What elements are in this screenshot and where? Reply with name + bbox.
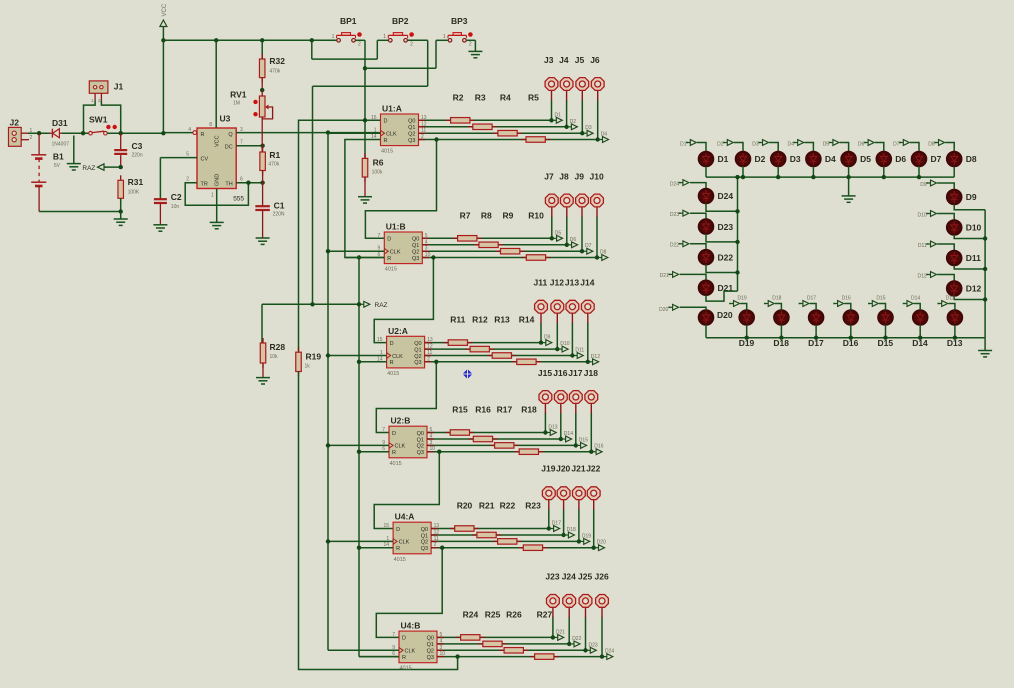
capacitor C2 10n (154, 198, 167, 200)
svg-text:D15: D15 (579, 437, 588, 443)
ground BP3 (468, 50, 482, 52)
connector J25 (579, 595, 592, 608)
svg-text:D20: D20 (659, 307, 668, 313)
wire BP3.2 to ground (474, 40, 476, 51)
terminal D21 (555, 636, 558, 638)
IC U4:A 4015 (393, 522, 431, 554)
wire D9 cathode (954, 204, 985, 209)
wire U4:A Q2 row (431, 540, 579, 542)
svg-text:Q3: Q3 (417, 450, 424, 456)
LED D5 (841, 152, 856, 167)
terminal D5 feed (829, 142, 831, 144)
resistor R25 (478, 643, 507, 645)
wire pad drop J12 (556, 323, 558, 349)
svg-text:R23: R23 (525, 501, 541, 511)
svg-text:J19: J19 (541, 464, 555, 474)
svg-text:R: R (384, 138, 388, 144)
svg-text:J10: J10 (590, 172, 604, 182)
svg-text:U2:B: U2:B (391, 416, 411, 426)
resistor R21 (472, 534, 501, 536)
svg-text:Q3: Q3 (408, 138, 415, 144)
svg-text:R1: R1 (269, 150, 280, 160)
svg-text:5: 5 (186, 151, 189, 157)
wire U2:A R lead (359, 361, 387, 363)
wire RAZ row (262, 303, 359, 305)
svg-text:J12: J12 (550, 278, 564, 288)
svg-text:J23: J23 (545, 572, 559, 582)
LED D15 (878, 310, 893, 325)
svg-text:RV1: RV1 (230, 89, 247, 99)
LED D16 (844, 310, 859, 325)
wire VCC to switch row (162, 40, 164, 133)
wire D7 cathode (918, 166, 920, 177)
svg-text:R31: R31 (128, 177, 144, 187)
svg-text:J16: J16 (553, 368, 567, 378)
LED D3 (771, 152, 786, 167)
node J13/D11 (570, 353, 574, 357)
svg-text:D17: D17 (552, 521, 561, 527)
terminal D7 (584, 250, 587, 252)
svg-text:15: 15 (377, 337, 383, 343)
svg-text:D13: D13 (946, 296, 955, 302)
svg-text:SW1: SW1 (89, 115, 108, 125)
LED D6 (877, 152, 892, 167)
svg-text:1M: 1M (233, 101, 240, 107)
svg-text:R7: R7 (460, 210, 471, 220)
node J11/D9 (539, 340, 543, 344)
node J12/D10 (555, 347, 559, 351)
svg-text:7: 7 (240, 140, 243, 146)
ground after D31 (73, 136, 75, 164)
potentiometer RV1 1M (261, 90, 263, 96)
terminal D17 feed (799, 303, 801, 305)
LED panel left bus (737, 177, 739, 291)
svg-text:R15: R15 (452, 405, 468, 415)
resistor R28 10k (261, 304, 263, 343)
wire D22 cathode (706, 265, 738, 273)
svg-text:TH: TH (225, 182, 232, 188)
resistor R31 100K (120, 175, 122, 203)
svg-text:R10: R10 (528, 210, 544, 220)
wire D3 cathode (777, 166, 779, 177)
wire D19 cathode (746, 325, 748, 338)
svg-text:R28: R28 (270, 342, 286, 352)
wire U2:B Q3 row (427, 451, 591, 453)
svg-text:D3: D3 (585, 125, 592, 131)
terminal D12 (590, 361, 593, 363)
svg-text:D3: D3 (752, 141, 759, 147)
svg-text:J5: J5 (575, 55, 585, 65)
terminal D2 feed (723, 142, 725, 144)
terminal D3 feed (758, 142, 760, 144)
wire D18 anode (775, 304, 782, 311)
wire BP3 leads (436, 39, 448, 41)
wire SW1 to VCC node (107, 132, 163, 134)
svg-text:R16: R16 (475, 405, 491, 415)
svg-text:VCC: VCC (215, 135, 221, 147)
svg-text:D: D (384, 119, 388, 125)
node right bus D10 (983, 236, 987, 240)
LED D19 (739, 310, 754, 325)
node top bus D4 (811, 175, 815, 179)
terminal D15 (578, 444, 581, 446)
wire feedback line (top) (299, 120, 381, 352)
wire U2:A Q3 row (425, 361, 588, 363)
node J14/D12 (586, 360, 590, 364)
svg-text:Q0: Q0 (421, 527, 428, 533)
node U4:A Q3 (440, 546, 444, 550)
node CLK bus top (326, 130, 330, 134)
svg-text:Q3: Q3 (412, 256, 419, 262)
555 pin4 R with bubble (163, 132, 192, 134)
svg-text:J18: J18 (584, 368, 598, 378)
node top bus D3 (776, 175, 780, 179)
wire U2:B CLK lead (328, 444, 389, 446)
wire U2:B R lead (359, 451, 389, 453)
svg-text:Q1: Q1 (427, 642, 434, 648)
resistor R26 (499, 649, 528, 651)
svg-text:4015: 4015 (385, 267, 397, 273)
wire D1 cathode (705, 166, 707, 177)
terminal D16 (593, 451, 596, 453)
terminal D6 feed (864, 142, 866, 144)
svg-text:Q2: Q2 (412, 250, 419, 256)
svg-text:D6: D6 (858, 141, 865, 147)
terminal D19 feed (729, 303, 731, 305)
svg-text:D24: D24 (718, 191, 734, 201)
wire D11 anode (937, 244, 954, 251)
svg-text:D9: D9 (544, 335, 551, 341)
terminal D16 feed (833, 303, 835, 305)
terminal D13 feed (937, 303, 939, 305)
svg-text:4015: 4015 (381, 149, 393, 155)
wire D23 cathode (706, 234, 738, 242)
svg-text:1k: 1k (305, 364, 311, 370)
wire U1:B Q2 row (422, 250, 582, 252)
ground R6 (358, 196, 372, 198)
svg-text:D13: D13 (548, 425, 557, 431)
svg-text:U4:A: U4:A (395, 512, 415, 522)
terminal D14 feed (903, 303, 905, 305)
node right bus D12 (983, 297, 987, 301)
svg-text:D22: D22 (572, 636, 581, 642)
IC U1:B 4015 (384, 232, 422, 264)
svg-text:D15: D15 (876, 296, 885, 302)
node bottom bus D19 (745, 336, 749, 340)
wire U2:B Q0 row (427, 432, 545, 434)
terminal D15 feed (868, 303, 870, 305)
IC U2:B 4015 (389, 426, 427, 458)
svg-text:Q2: Q2 (408, 132, 415, 138)
svg-text:D23: D23 (718, 222, 734, 232)
wire U2:A Q2 row (425, 355, 573, 357)
svg-text:R11: R11 (450, 315, 465, 325)
node RAZ/BP2 (310, 302, 314, 306)
svg-text:D19: D19 (738, 296, 747, 302)
wire pad drop J6 (597, 100, 599, 140)
resistor R17 (490, 444, 519, 446)
wire D24 cathode (706, 203, 738, 211)
wire U2:B Q1 row (427, 438, 561, 440)
svg-text:D16: D16 (594, 444, 603, 450)
connector J17 (569, 391, 582, 404)
svg-text:J8: J8 (559, 172, 569, 182)
node J4/D2 (564, 125, 568, 129)
wire D5 anode (840, 143, 849, 152)
svg-text:15: 15 (384, 523, 390, 529)
node U2:B Q3 (437, 450, 441, 454)
node bottom bus D14 (918, 336, 922, 340)
svg-text:4015: 4015 (390, 461, 402, 467)
node R bus U2:B (357, 450, 361, 454)
connector J26 (596, 595, 609, 608)
ground C2 (153, 224, 167, 226)
wire U2:A CLK lead (328, 355, 387, 357)
wire pad drop J15 (544, 413, 546, 433)
wire D19 anode (740, 304, 747, 311)
resistor R27 (530, 656, 559, 658)
wire U4:A CLK lead (328, 540, 393, 542)
svg-text:4015: 4015 (400, 666, 412, 672)
terminal D10 (559, 348, 562, 350)
wire pad drop J24 (568, 617, 570, 644)
wire D21 cathode (706, 291, 738, 301)
svg-text:CLK: CLK (392, 354, 403, 360)
svg-text:D1: D1 (680, 141, 687, 147)
terminal D8 (599, 257, 602, 259)
svg-text:RAZ: RAZ (82, 165, 95, 172)
LED D20 (699, 310, 714, 325)
svg-text:R3: R3 (475, 92, 486, 102)
svg-text:D1: D1 (718, 154, 729, 164)
svg-text:100k: 100k (372, 170, 383, 176)
connector J23 (547, 595, 560, 608)
wire D3 anode (769, 143, 778, 152)
node bottom bus D17 (814, 336, 818, 340)
node U1:B Q3 (431, 255, 435, 259)
svg-text:D9: D9 (920, 182, 927, 188)
wire BP1 leads (335, 39, 337, 41)
LED panel top bus (706, 176, 954, 178)
svg-text:D7: D7 (931, 154, 942, 164)
wire U4:B Q2 row (437, 649, 586, 651)
wire D10 anode (937, 214, 954, 221)
svg-text:Q3: Q3 (414, 360, 421, 366)
wire U1:A CLK lead (328, 132, 381, 134)
connector J24 (563, 595, 576, 608)
wire pad drop J9 (581, 217, 583, 252)
node top bus D5 (846, 175, 850, 179)
wire D24 anode (690, 183, 706, 189)
svg-text:R27: R27 (537, 609, 553, 619)
LED panel right bus (984, 210, 986, 339)
wire cascade U4:A Q3 to next D (376, 548, 442, 638)
svg-text:D23: D23 (589, 642, 598, 648)
svg-text:7: 7 (392, 632, 395, 638)
svg-text:R18: R18 (521, 405, 537, 415)
wire R bus (358, 258, 360, 657)
svg-text:VCC: VCC (162, 3, 168, 16)
resistor R3 (468, 126, 497, 128)
wire VCC rail (163, 39, 334, 41)
wire D1 anode (697, 143, 706, 152)
LED D11 (947, 251, 962, 266)
svg-text:D11: D11 (575, 348, 584, 354)
resistor R19 1k (298, 347, 300, 376)
wire U2:A Q1 row (425, 348, 558, 350)
wire pad drop J5 (581, 100, 583, 133)
resistor R23 (518, 547, 547, 549)
svg-text:1: 1 (443, 34, 446, 40)
svg-text:J2: J2 (10, 118, 20, 128)
svg-text:Q2: Q2 (417, 444, 424, 450)
LED D12 (947, 281, 962, 296)
cursor marker (463, 369, 473, 379)
svg-text:J25: J25 (578, 572, 592, 582)
node left bus D24 (735, 209, 739, 213)
terminal D2 (569, 126, 572, 128)
svg-text:U1:A: U1:A (382, 104, 402, 114)
LED D8 (947, 152, 962, 167)
ground B1/R31 (114, 218, 128, 220)
svg-text:BP3: BP3 (451, 16, 468, 26)
wire BP2.2 to RAZ (427, 40, 429, 86)
node R32/RV1 (261, 78, 263, 91)
svg-text:R26: R26 (506, 609, 522, 619)
wire U1:B Q1 row (422, 244, 567, 246)
svg-text:8: 8 (209, 122, 212, 128)
wire D11 cathode (954, 265, 985, 269)
svg-text:R22: R22 (500, 501, 516, 511)
svg-text:CLK: CLK (399, 540, 410, 546)
wire cascade U2:A Q3 to next D (376, 362, 436, 433)
svg-text:R: R (396, 546, 400, 552)
node J10/D8 (595, 255, 599, 259)
terminal D18 (566, 534, 569, 536)
wire D6 anode (875, 143, 884, 152)
svg-text:R13: R13 (494, 315, 510, 325)
svg-text:D22: D22 (718, 252, 734, 262)
svg-text:2: 2 (469, 42, 472, 48)
terminal D1 feed (686, 142, 688, 144)
svg-text:D12: D12 (591, 354, 600, 360)
connector J20 (557, 487, 570, 500)
terminal D9 feed (926, 182, 928, 184)
svg-text:R25: R25 (485, 609, 501, 619)
node J24/D22 (567, 642, 571, 646)
svg-text:Q3: Q3 (427, 655, 434, 661)
svg-text:2: 2 (358, 42, 361, 48)
svg-text:D6: D6 (570, 237, 577, 243)
svg-text:R: R (392, 450, 396, 456)
svg-text:Q0: Q0 (414, 341, 421, 347)
resistor R14 (512, 361, 541, 363)
resistor R15 (445, 432, 474, 434)
resistor R32 470k (261, 40, 263, 59)
svg-text:D22: D22 (670, 243, 679, 249)
terminal D7 feed (899, 142, 901, 144)
wire pad drop J19 (548, 509, 550, 528)
terminal D6 (569, 244, 572, 246)
node top bus D6 (882, 175, 886, 179)
svg-text:D20: D20 (597, 540, 606, 546)
wire D15 anode (879, 304, 886, 311)
terminal D5 (554, 237, 557, 239)
svg-text:2: 2 (186, 176, 189, 182)
node J26/D24 (600, 654, 604, 658)
555 GND pin1 (216, 189, 218, 223)
connector J6 (591, 78, 604, 91)
svg-text:10n: 10n (171, 204, 180, 210)
connector J8 (560, 194, 573, 207)
wire pad drop J4 (566, 100, 568, 127)
connector J15 (539, 391, 552, 404)
LED D24 (699, 189, 714, 204)
svg-text:7: 7 (378, 233, 381, 239)
svg-text:Q2: Q2 (414, 354, 421, 360)
wire U1:B CLK lead (328, 250, 384, 252)
connector J3 (545, 78, 558, 91)
terminal RAZ (left) (104, 166, 106, 168)
svg-text:Q1: Q1 (412, 243, 419, 249)
svg-text:D10: D10 (560, 341, 569, 347)
wire D13 cathode (954, 325, 956, 338)
svg-text:D14: D14 (564, 431, 573, 437)
svg-text:D9: D9 (966, 192, 977, 202)
svg-text:Q0: Q0 (408, 119, 415, 125)
svg-text:D: D (390, 341, 394, 347)
wire pad drop J18 (590, 413, 592, 452)
wire U4:B Q1 row (437, 643, 569, 645)
wire pad drop J16 (560, 413, 562, 439)
node C3 top (119, 131, 123, 135)
svg-text:R: R (387, 256, 391, 262)
svg-text:D: D (392, 431, 396, 437)
wire D12 cathode (954, 296, 985, 300)
node U4:B Q3 feedback (455, 654, 459, 658)
svg-text:D4: D4 (601, 132, 608, 138)
connector J10 (591, 194, 604, 207)
node VCC/R32 (260, 38, 264, 42)
svg-text:B1: B1 (53, 152, 64, 162)
terminal D22 (571, 643, 574, 645)
svg-text:Q0: Q0 (417, 431, 424, 437)
wire BP2 branch (311, 40, 313, 59)
svg-text:C1: C1 (274, 201, 285, 211)
node battery tap (37, 131, 41, 135)
wire D4 cathode (812, 166, 814, 177)
svg-text:R17: R17 (497, 405, 513, 415)
LED D21 (699, 281, 714, 296)
terminal D24 feed (679, 182, 681, 184)
ground C1 (256, 237, 270, 239)
svg-text:7: 7 (382, 427, 385, 433)
terminal D17 (551, 528, 554, 530)
wire RAZ to C3/R31 node (105, 166, 121, 168)
node VCC corner (161, 131, 165, 135)
node bottom bus D18 (779, 336, 783, 340)
svg-text:Q2: Q2 (421, 540, 428, 546)
svg-text:R6: R6 (373, 158, 384, 168)
terminal D12 feed (926, 274, 928, 276)
node left bus D23 (735, 240, 739, 244)
LED D17 (809, 310, 824, 325)
svg-text:Q3: Q3 (421, 546, 428, 552)
wire D20 cathode (705, 325, 707, 338)
wire R link U1:A-U1:B (345, 140, 384, 258)
terminal D23 feed (679, 212, 681, 214)
svg-text:J21: J21 (571, 464, 585, 474)
